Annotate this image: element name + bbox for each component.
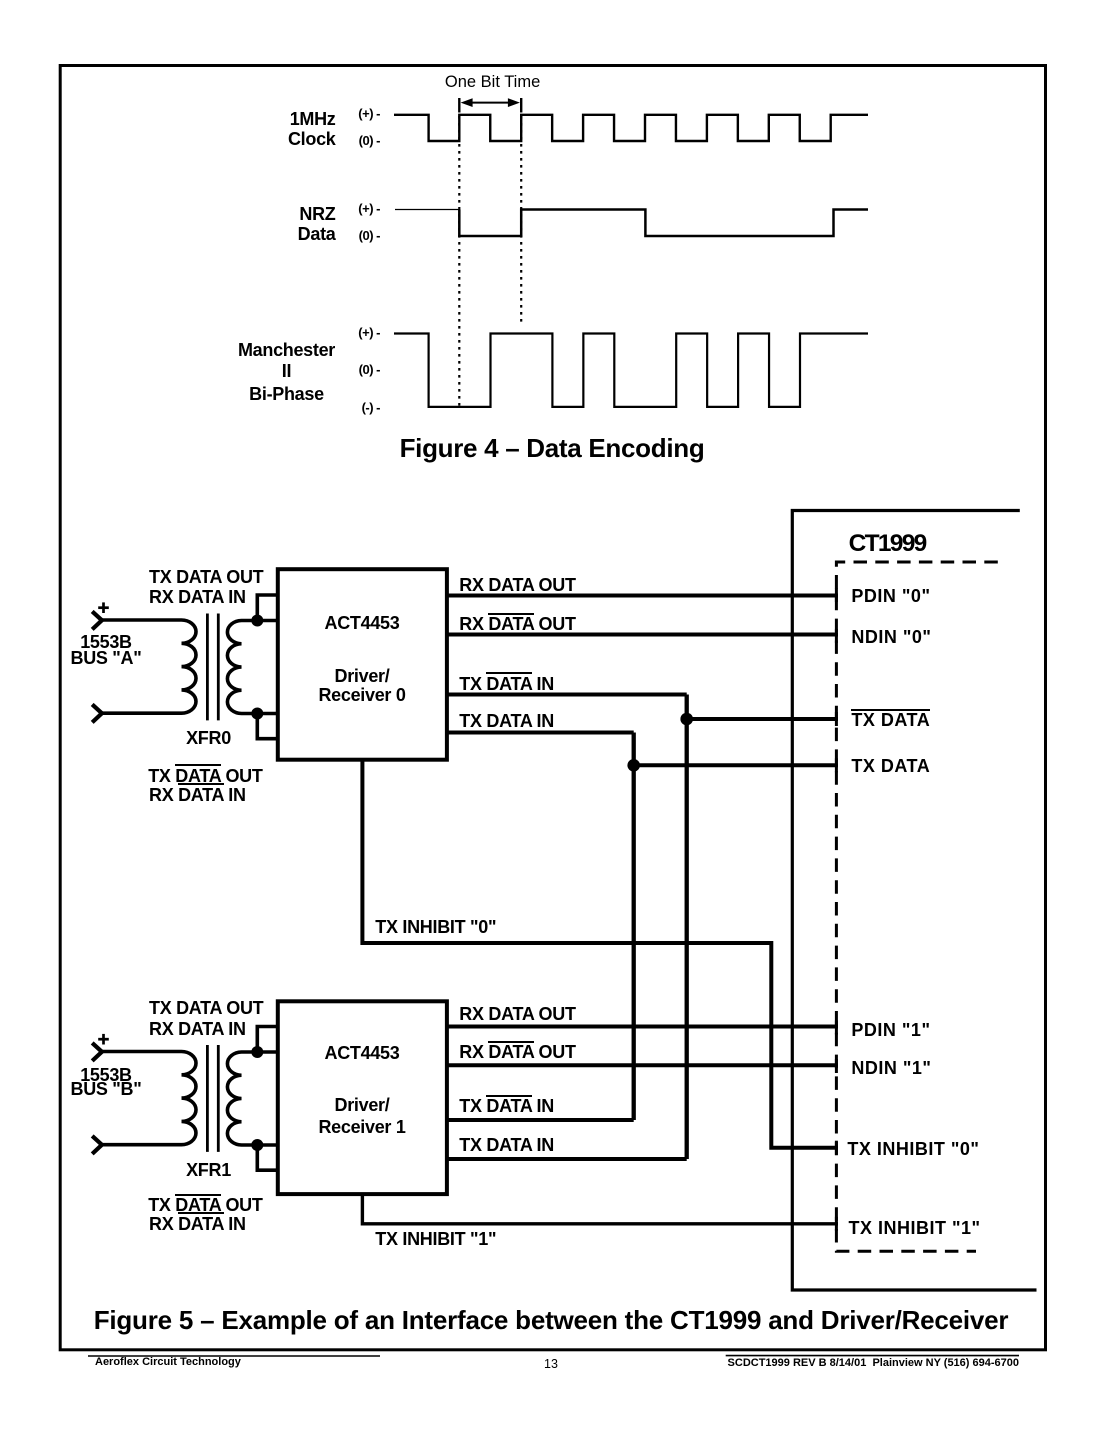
label TX DATA-bar OUT (xfr0 bottom) (148, 767, 262, 785)
junction dot XFR1 top (251, 1046, 263, 1058)
label RX DATA IN (xfr1 top) (149, 1020, 246, 1038)
clock (0) level label (320, 134, 380, 147)
footer rule right (726, 1355, 1019, 1357)
Manchester (-) level label (320, 401, 380, 414)
footer right: doc number (619, 1358, 1019, 1369)
label TX DATA OUT (xfr0 top) (149, 568, 263, 586)
label Driver/ (U0) (262, 667, 462, 685)
transformer XFR1 primary winding (101, 1052, 196, 1145)
pin tick TX INHIBIT "1" (835, 1217, 838, 1231)
label: One Bit Time (393, 74, 593, 91)
pin tick TX DATA (835, 758, 838, 772)
junction dot TX DATA net (627, 759, 640, 772)
one-bit-time right tick (520, 98, 522, 113)
pin label NDIN "1" (851, 1059, 931, 1077)
pin tick NDIN "0" (835, 629, 838, 643)
NRZ (0) level label (320, 229, 380, 242)
transformer XFR1 secondary winding (227, 1052, 277, 1145)
label: NRZ Data (136, 205, 336, 244)
bus B top terminal chevron (92, 1043, 102, 1061)
footer left: Aeroflex Circuit Technology (95, 1357, 241, 1368)
label Driver/ (U1) (262, 1096, 462, 1114)
wire TX DATA IN 1 (447, 1157, 687, 1161)
pin label PDIN "1" (851, 1021, 930, 1039)
label Receiver 1 (U1) (262, 1118, 462, 1136)
XFR0 secondary top stub wire (257, 595, 278, 621)
wire TX DATA IN 0 (447, 731, 634, 735)
pin tick NDIN "1" (835, 1059, 838, 1073)
transformer XFR0 core (207, 614, 218, 721)
label CT1999 (849, 532, 926, 557)
junction dot XFR1 bottom (251, 1139, 263, 1151)
label XFR0 (109, 729, 309, 747)
label BUS "B" (6, 1080, 206, 1098)
Manchester II bi-phase waveform (394, 334, 868, 407)
junction dot XFR0 top (251, 615, 263, 627)
bus A bottom terminal chevron (92, 704, 102, 722)
label RX DATA-bar IN (xfr1 bottom) (149, 1215, 246, 1233)
pin label NDIN "0" (851, 628, 931, 646)
label TX DATA IN (U1 right) (459, 1136, 554, 1154)
vertical net TX DATA (632, 733, 636, 1121)
bit-boundary dotted line 1 (458, 116, 460, 407)
vertical net TX DATA-bar (685, 695, 689, 1160)
Manchester (0) level label (320, 363, 380, 376)
transformer XFR0 secondary winding (227, 621, 277, 714)
clock (+) level label (320, 107, 380, 120)
transformer XFR1 core (207, 1045, 218, 1152)
transformer XFR0 primary winding (101, 620, 196, 713)
wire RX DATA-bar OUT 1 to NDIN "1" (447, 1063, 838, 1067)
XFR1 secondary top stub wire (257, 1027, 278, 1053)
CT1999 outer solid boundary (792, 511, 1036, 1291)
label XFR1 (109, 1161, 309, 1179)
footer page number 13 (451, 1358, 651, 1371)
NRZ data waveform (459, 210, 868, 237)
bus B bottom terminal chevron (92, 1136, 102, 1154)
CT1999 dashed package outline (836, 562, 997, 1251)
label Receiver 0 (U0) (262, 686, 462, 704)
label RX DATA OUT (U0 right) (459, 576, 575, 594)
label ACT4453 (U1) (262, 1044, 462, 1062)
wire RX DATA-bar OUT 0 to NDIN "0" (447, 633, 838, 637)
label TX DATA OUT (xfr1 top) (149, 999, 263, 1017)
pin label TX INHIBIT "0" (847, 1140, 979, 1158)
bus A top terminal chevron (92, 611, 102, 629)
pin tick PDIN "1" (835, 1021, 838, 1035)
figure 4 caption (252, 435, 852, 461)
1MHz clock waveform (394, 115, 868, 141)
tap wire to TX DATA-bar pin (687, 717, 838, 721)
one-bit-time left tick (458, 98, 460, 113)
one-bit-time arrow (461, 98, 520, 107)
XFR0 secondary bottom stub wire (257, 714, 278, 739)
bus B terminal + (98, 1034, 109, 1045)
label TX INHIBIT "1" (wire) (375, 1230, 496, 1248)
wire TX INHIBIT "0" (362, 760, 838, 1148)
label RX DATA-bar IN (xfr0 bottom) (149, 786, 246, 804)
label BUS "A" (6, 649, 206, 667)
driver/receiver 0 block U0 (278, 569, 447, 760)
wire TX DATA-bar IN 1 (447, 1118, 634, 1122)
label 1553B (bus B) (6, 1066, 206, 1084)
Manchester (+) level label (320, 326, 380, 339)
wire RX DATA OUT 1 to PDIN "1" (447, 1025, 838, 1029)
label RX DATA IN (xfr0 top) (149, 588, 246, 606)
pin tick TX INHIBIT "0" (835, 1141, 838, 1155)
label RX DATA-bar OUT (U1 right) (459, 1043, 575, 1061)
label RX DATA OUT (U1 right) (459, 1005, 575, 1023)
junction dot XFR0 bottom (251, 708, 263, 720)
figure 5 caption (51, 1307, 1051, 1333)
label TX DATA-bar IN (U1 right) (459, 1097, 554, 1115)
bus A terminal + (98, 602, 109, 613)
NRZ data waveform (thin lead-in) (395, 209, 459, 211)
label ACT4453 (U0) (262, 614, 462, 632)
label: 1MHz Clock (136, 110, 336, 149)
label TX DATA-bar OUT (xfr1 bottom) (148, 1196, 262, 1214)
label TX INHIBIT "0" (wire) (375, 918, 496, 936)
footer rule left (88, 1355, 380, 1357)
wire TX DATA-bar IN 0 (447, 693, 687, 697)
wire TX INHIBIT "1" (362, 1194, 838, 1224)
pin tick TX DATA-bar (835, 712, 838, 726)
label: Manchester II Bi-Phase (187, 341, 387, 359)
junction dot TX DATA-bar net (680, 713, 693, 726)
pin label TX INHIBIT "1" (849, 1219, 981, 1237)
label RX DATA-bar OUT (U0 right) (459, 615, 575, 633)
driver/receiver 1 block U1 (278, 1001, 447, 1194)
bit-boundary dotted line 2 (520, 116, 522, 326)
tap wire to TX DATA pin (634, 763, 838, 767)
wire RX DATA OUT 0 to PDIN "0" (447, 594, 838, 598)
pin label TX DATA (851, 757, 930, 775)
pin label PDIN "0" (851, 587, 930, 605)
pin label TX DATA-bar (851, 711, 930, 729)
label 1553B (6, 633, 206, 651)
pin tick PDIN "0" (835, 588, 838, 602)
label TX DATA-bar IN (U0 right) (459, 675, 554, 693)
XFR1 secondary bottom stub wire (257, 1145, 278, 1170)
label TX DATA IN (U0 right) (459, 712, 554, 730)
NRZ (+) level label (320, 202, 380, 215)
